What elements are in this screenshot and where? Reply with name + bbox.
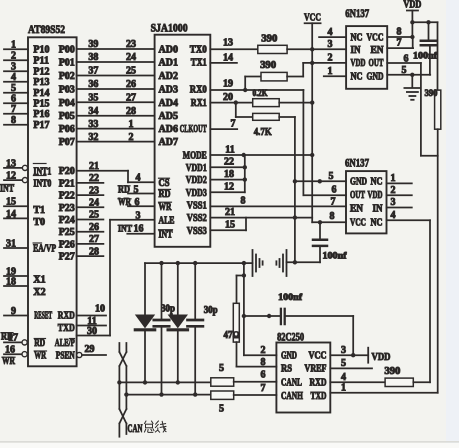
svg-text:9: 9 (11, 306, 16, 317)
svg-text:15: 15 (6, 197, 16, 208)
svg-text:34: 34 (88, 106, 98, 117)
svg-text:27: 27 (126, 93, 136, 104)
svg-text:PSEN: PSEN (56, 351, 76, 362)
svg-text:16: 16 (134, 224, 144, 235)
svg-text:P10: P10 (33, 45, 49, 56)
svg-text:ALE/P: ALE/P (55, 338, 75, 349)
svg-text:3: 3 (11, 62, 16, 73)
svg-text:100nf: 100nf (413, 52, 438, 62)
svg-text:VDD2: VDD2 (186, 175, 207, 186)
svg-text:25: 25 (89, 210, 99, 221)
svg-text:6: 6 (135, 197, 140, 208)
svg-text:X2: X2 (33, 287, 45, 298)
svg-text:RXD: RXD (310, 377, 327, 388)
svg-text:6N137: 6N137 (345, 8, 369, 20)
svg-text:CANH: CANH (281, 391, 303, 402)
svg-text:EN: EN (350, 203, 364, 214)
svg-text:17: 17 (8, 333, 18, 344)
svg-text:IN: IN (351, 45, 362, 56)
svg-text:6: 6 (261, 370, 266, 381)
svg-text:X1: X1 (33, 275, 45, 286)
svg-text:T1: T1 (33, 205, 45, 216)
svg-text:4: 4 (136, 173, 141, 184)
svg-text:CANL: CANL (281, 377, 302, 388)
svg-text:4.7K: 4.7K (254, 127, 273, 138)
svg-text:29: 29 (85, 344, 95, 355)
svg-text:23: 23 (126, 39, 136, 50)
svg-text:VDD: VDD (403, 0, 421, 10)
svg-text:AD6: AD6 (159, 124, 178, 135)
svg-text:3: 3 (328, 39, 333, 50)
svg-text:39: 39 (88, 39, 98, 50)
svg-text:20: 20 (223, 92, 233, 103)
svg-text:2: 2 (129, 132, 134, 143)
svg-text:INT0: INT0 (33, 179, 51, 190)
svg-text:Ω: Ω (233, 330, 240, 340)
svg-text:6: 6 (404, 54, 409, 65)
svg-text:AD3: AD3 (159, 85, 178, 96)
svg-text:TXD: TXD (311, 391, 327, 402)
svg-text:21: 21 (225, 207, 235, 218)
svg-text:P14: P14 (33, 88, 49, 99)
svg-text:TX1: TX1 (191, 58, 207, 69)
svg-text:3: 3 (136, 210, 141, 221)
svg-text:25: 25 (126, 66, 136, 77)
svg-text:6: 6 (11, 94, 16, 105)
svg-text:100nf: 100nf (323, 252, 348, 262)
svg-text:VREF: VREF (305, 364, 327, 375)
svg-text:30: 30 (87, 326, 97, 337)
svg-text:390: 390 (384, 366, 400, 377)
svg-text:18: 18 (6, 277, 16, 288)
svg-text:1: 1 (328, 66, 333, 77)
svg-text:GND: GND (281, 351, 297, 362)
svg-text:30p: 30p (161, 304, 175, 315)
svg-text:13: 13 (6, 158, 16, 169)
svg-text:P04: P04 (59, 98, 75, 109)
svg-text:AD1: AD1 (159, 58, 178, 69)
svg-text:22: 22 (89, 173, 99, 184)
svg-text:OUT: OUT (350, 190, 365, 201)
svg-text:12: 12 (224, 182, 234, 193)
svg-text:WR: WR (159, 202, 173, 213)
svg-text:VCC: VCC (304, 11, 321, 23)
svg-text:P00: P00 (59, 45, 75, 56)
svg-text:5: 5 (219, 363, 224, 374)
svg-text:CLKOUT: CLKOUT (180, 124, 207, 135)
svg-text:24: 24 (89, 198, 99, 209)
svg-text:3: 3 (391, 197, 396, 208)
svg-text:1: 1 (391, 173, 396, 184)
svg-text:5: 5 (219, 404, 224, 415)
svg-text:28: 28 (126, 106, 136, 117)
svg-text:NC: NC (351, 72, 363, 83)
svg-text:13: 13 (223, 38, 233, 49)
svg-text:P27: P27 (59, 252, 75, 263)
svg-text:AD2: AD2 (159, 71, 178, 82)
svg-text:VSS3: VSS3 (187, 226, 207, 237)
svg-text:390: 390 (261, 34, 277, 45)
svg-text:7: 7 (231, 119, 236, 130)
svg-text:P06: P06 (59, 124, 75, 135)
svg-text:GND: GND (350, 177, 367, 188)
svg-text:8: 8 (11, 115, 16, 126)
svg-text:RX1: RX1 (191, 98, 207, 109)
svg-text:VDD: VDD (351, 58, 366, 69)
svg-text:EA/VP: EA/VP (33, 244, 56, 255)
svg-text:NC: NC (371, 218, 383, 229)
svg-text:IN: IN (373, 203, 384, 214)
svg-text:T0: T0 (33, 217, 45, 228)
svg-text:P25: P25 (59, 227, 75, 238)
svg-text:VCC: VCC (350, 218, 366, 229)
svg-text:5: 5 (11, 83, 16, 94)
svg-text:P15: P15 (33, 99, 49, 110)
svg-text:RD: RD (34, 338, 45, 349)
svg-text:100nf: 100nf (278, 293, 303, 303)
svg-text:14: 14 (223, 52, 233, 63)
svg-text:47: 47 (224, 330, 233, 341)
svg-text:TXD: TXD (58, 323, 75, 334)
svg-text:INT: INT (118, 225, 133, 235)
svg-text:P13: P13 (33, 77, 49, 88)
svg-text:P01: P01 (59, 58, 75, 69)
svg-text:5: 5 (402, 65, 407, 76)
svg-text:10: 10 (95, 304, 105, 315)
svg-text:33: 33 (88, 119, 98, 130)
svg-text:19: 19 (223, 79, 233, 90)
svg-text:22: 22 (224, 157, 234, 168)
svg-text:2: 2 (11, 51, 16, 62)
svg-text:INT: INT (0, 184, 14, 195)
svg-text:6: 6 (332, 185, 337, 196)
svg-text:12: 12 (6, 171, 16, 182)
svg-text:390: 390 (425, 89, 438, 99)
svg-text:5: 5 (341, 358, 346, 369)
svg-text:P12: P12 (33, 67, 49, 78)
svg-text:37: 37 (88, 66, 98, 77)
svg-text:P23: P23 (59, 203, 75, 214)
svg-text:26: 26 (126, 79, 136, 90)
svg-text:CS: CS (159, 178, 170, 189)
svg-text:RXD: RXD (58, 311, 75, 322)
svg-text:GND: GND (367, 72, 384, 83)
svg-text:15: 15 (225, 220, 235, 231)
svg-text:TX0: TX0 (190, 45, 207, 56)
svg-text:RD: RD (159, 189, 171, 200)
svg-text:ALE: ALE (159, 215, 175, 226)
svg-text:8: 8 (330, 211, 335, 222)
svg-text:SJA1000: SJA1000 (151, 21, 188, 35)
svg-text:P05: P05 (59, 111, 75, 122)
svg-text:26: 26 (89, 222, 99, 233)
svg-text:AD4: AD4 (159, 98, 178, 109)
svg-text:30p: 30p (204, 305, 218, 316)
svg-text:4: 4 (328, 27, 333, 38)
svg-text:0.2K: 0.2K (253, 88, 268, 98)
svg-text:WR: WR (34, 351, 47, 362)
svg-text:18: 18 (224, 169, 234, 180)
svg-text:P11: P11 (33, 56, 49, 67)
svg-text:8: 8 (241, 196, 246, 207)
svg-text:8: 8 (397, 27, 402, 38)
svg-text:16: 16 (5, 345, 15, 356)
svg-text:P22: P22 (59, 191, 75, 202)
svg-text:P21: P21 (59, 178, 75, 189)
svg-text:RESET: RESET (34, 311, 52, 322)
svg-text:P03: P03 (59, 85, 75, 96)
svg-text:390: 390 (260, 60, 276, 71)
svg-text:VSS1: VSS1 (187, 201, 207, 212)
svg-text:P17: P17 (33, 120, 49, 131)
svg-text:24: 24 (126, 52, 136, 63)
svg-text:14: 14 (6, 209, 16, 220)
svg-text:21: 21 (89, 161, 99, 172)
svg-text:5: 5 (134, 184, 139, 195)
svg-text:VDD1: VDD1 (186, 163, 207, 174)
svg-text:36: 36 (88, 79, 98, 90)
svg-text:3: 3 (341, 345, 346, 356)
svg-text:VCC: VCC (309, 351, 327, 362)
svg-text:31: 31 (6, 239, 16, 250)
svg-text:P20: P20 (59, 166, 75, 177)
svg-text:P07: P07 (59, 137, 75, 148)
svg-text:AD0: AD0 (159, 45, 178, 56)
svg-text:1: 1 (341, 383, 346, 394)
svg-text:35: 35 (88, 93, 98, 104)
svg-text:P16: P16 (33, 109, 49, 120)
svg-text:7: 7 (11, 104, 16, 115)
svg-text:1: 1 (11, 40, 16, 51)
svg-text:28: 28 (89, 246, 99, 257)
svg-text:32: 32 (88, 132, 98, 143)
svg-text:VCC: VCC (367, 33, 384, 44)
svg-text:MODE: MODE (183, 151, 207, 162)
svg-text:OUT: OUT (369, 58, 384, 69)
svg-text:1: 1 (129, 119, 134, 130)
svg-text:RX0: RX0 (190, 85, 207, 96)
svg-text:P02: P02 (59, 71, 75, 82)
svg-text:AD5: AD5 (159, 111, 178, 122)
svg-text:82C250: 82C250 (277, 332, 304, 344)
svg-text:VSS2: VSS2 (187, 213, 207, 224)
svg-text:7: 7 (397, 38, 402, 49)
svg-text:AT89S52: AT89S52 (28, 22, 65, 36)
svg-text:AD7: AD7 (159, 137, 178, 148)
svg-text:NC: NC (351, 33, 363, 44)
svg-text:6N137: 6N137 (345, 158, 369, 170)
svg-text:P24: P24 (59, 215, 75, 226)
svg-text:4: 4 (341, 372, 346, 383)
svg-text:8: 8 (261, 357, 266, 368)
svg-text:5: 5 (329, 171, 334, 182)
svg-text:23: 23 (89, 185, 99, 196)
svg-text:2: 2 (328, 53, 333, 64)
svg-text:2: 2 (391, 185, 396, 196)
svg-text:7: 7 (261, 383, 266, 394)
svg-text:7: 7 (331, 196, 336, 207)
svg-text:VDD: VDD (372, 352, 391, 363)
svg-text:NC: NC (371, 177, 383, 188)
svg-text:11: 11 (225, 144, 234, 155)
svg-text:VDD: VDD (368, 190, 383, 201)
svg-text:2: 2 (261, 345, 266, 356)
svg-text:4: 4 (11, 72, 16, 83)
svg-text:CAN: CAN (128, 423, 143, 435)
svg-text:INT: INT (159, 229, 173, 240)
svg-text:27: 27 (89, 234, 99, 245)
svg-text:VDD3: VDD3 (186, 188, 207, 199)
svg-text:RS: RS (281, 364, 292, 375)
svg-text:P26: P26 (59, 239, 75, 250)
svg-text:4: 4 (391, 210, 396, 221)
svg-text:EN: EN (371, 45, 385, 56)
svg-text:38: 38 (88, 52, 98, 63)
